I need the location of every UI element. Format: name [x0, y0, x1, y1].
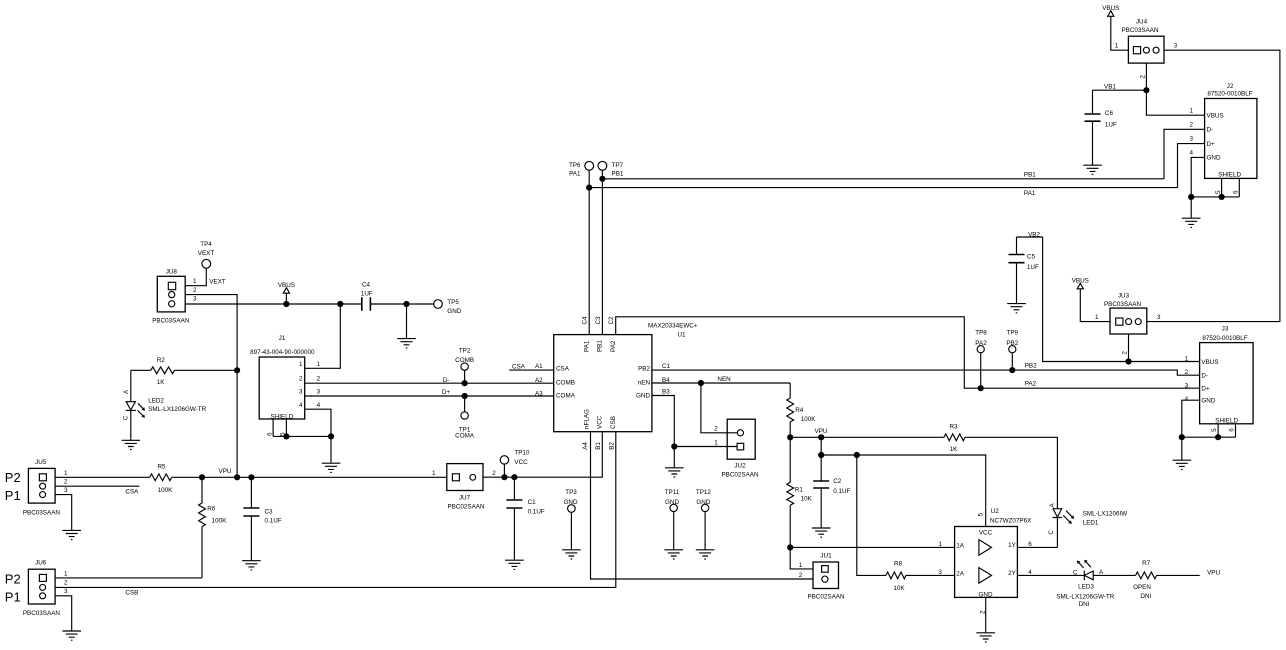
svg-text:1: 1: [64, 470, 68, 477]
svg-text:A2: A2: [535, 377, 543, 384]
wire J1 shield pins to ground: [266, 419, 334, 463]
svg-text:R3: R3: [949, 424, 958, 431]
ground below J2: [1182, 218, 1201, 227]
svg-text:3: 3: [938, 569, 942, 576]
svg-text:COMA: COMA: [556, 393, 576, 400]
wire VBUS to JU3 pin1: [1080, 289, 1110, 322]
svg-text:R4: R4: [795, 407, 804, 414]
capacitor C1 0.1UF: [506, 474, 545, 560]
test point TP1 COMA: [455, 396, 475, 440]
wire J1 pin1 to VBUS rail: [305, 304, 341, 368]
capacitor C3 0.1UF: [243, 477, 281, 560]
svg-text:87520-0010BLF: 87520-0010BLF: [1207, 91, 1252, 98]
connector J1 897-43-004-90-000000: [250, 335, 315, 420]
svg-text:VEXT: VEXT: [209, 279, 226, 286]
svg-text:D+: D+: [1201, 386, 1210, 393]
svg-text:JU6: JU6: [35, 560, 47, 567]
svg-text:TP2: TP2: [459, 348, 471, 355]
svg-text:VPU: VPU: [219, 468, 232, 475]
ground below JU6: [62, 631, 81, 640]
svg-text:2: 2: [64, 579, 68, 586]
test point TP7 PB1: [598, 161, 624, 177]
connector JU1 PBC02SAAN: [807, 553, 845, 601]
ground below U1 GND: [665, 468, 684, 477]
wire J1 pin4 to ground: [305, 402, 331, 436]
svg-text:1: 1: [1095, 314, 1099, 321]
test point TP9 PB2: [1006, 330, 1018, 371]
svg-text:0.1UF: 0.1UF: [528, 509, 545, 516]
svg-text:PA2: PA2: [1025, 380, 1037, 387]
svg-text:897-43-004-90-000000: 897-43-004-90-000000: [250, 349, 315, 356]
resistor R6 100K: [199, 477, 228, 578]
svg-text:NC7WZ07P6X: NC7WZ07P6X: [990, 517, 1032, 524]
wire VBUS rail from JU8 pin3 to C4: [185, 301, 362, 307]
ground below C3: [242, 561, 261, 570]
svg-text:TP10: TP10: [514, 450, 530, 457]
svg-text:PB1: PB1: [1024, 172, 1036, 179]
wire U1 nFLAG A4 down to JU1 pin2: [591, 432, 814, 579]
svg-text:JU1: JU1: [820, 553, 832, 560]
wire J2 D- pin2 to net PB1: [1164, 129, 1205, 179]
svg-text:3: 3: [64, 487, 68, 494]
svg-text:PBC03SAAN: PBC03SAAN: [152, 318, 190, 325]
power symbol VBUS at JU3: [1072, 278, 1089, 289]
buffer gate 2 inside U2: [979, 568, 992, 584]
svg-text:100K: 100K: [212, 518, 228, 525]
svg-text:A4: A4: [582, 442, 589, 450]
svg-text:nEN: nEN: [638, 380, 651, 387]
LED LED2 SML-LX1206GW-TR: [122, 370, 206, 440]
svg-text:VBUS: VBUS: [1102, 5, 1119, 12]
wire C4 right to TP5 with ground branch: [370, 301, 433, 338]
svg-text:2: 2: [714, 425, 718, 432]
wire JU1 pin1 to R1 node: [790, 547, 813, 579]
wire JU6 pin1 to R6 bottom: [55, 577, 202, 579]
svg-text:J3: J3: [1222, 326, 1229, 333]
svg-text:A3: A3: [535, 391, 543, 398]
test point TP6 PA1: [569, 161, 594, 177]
svg-text:PB2: PB2: [1025, 363, 1037, 370]
svg-text:P1: P1: [5, 590, 21, 605]
svg-text:1: 1: [299, 361, 303, 368]
connector J2 87520-0010BLF (USB): [1189, 83, 1256, 194]
svg-text:TP9: TP9: [1007, 330, 1019, 337]
wire JU6 pin2 net CSB to U1 CSB: [55, 432, 616, 597]
svg-text:5: 5: [1211, 428, 1218, 432]
svg-text:3: 3: [299, 388, 303, 395]
ground below C5: [1007, 304, 1026, 313]
wire U1 nEN to net NEN: [652, 376, 790, 386]
svg-text:100K: 100K: [158, 487, 174, 494]
transistor U2 NC7WZ07P6X (dual buffer): [955, 508, 1032, 598]
svg-text:PA1: PA1: [1024, 190, 1036, 197]
svg-text:U1: U1: [677, 332, 686, 339]
svg-text:D-: D-: [1201, 372, 1208, 379]
connector JU6 PBC03SAAN: [5, 560, 68, 618]
svg-text:3: 3: [64, 588, 68, 595]
svg-text:4: 4: [1185, 396, 1189, 403]
svg-text:3: 3: [317, 388, 321, 395]
svg-text:TP6: TP6: [569, 162, 581, 169]
svg-text:2: 2: [799, 572, 803, 579]
svg-text:U2: U2: [991, 508, 1000, 515]
svg-text:1: 1: [799, 562, 803, 569]
svg-text:C1: C1: [528, 499, 537, 506]
svg-text:10K: 10K: [801, 496, 813, 503]
ground below J1: [322, 463, 341, 472]
svg-text:P2: P2: [5, 572, 21, 587]
svg-text:JU5: JU5: [35, 459, 47, 466]
wire TP6 stem to U1 PA1 pin: [588, 170, 590, 334]
svg-text:R5: R5: [157, 463, 166, 470]
svg-text:1: 1: [714, 439, 718, 446]
resistor R5 100K: [150, 463, 173, 494]
svg-text:100K: 100K: [801, 416, 817, 423]
svg-text:A1: A1: [535, 363, 543, 370]
connector J3 87520-0010BLF (USB): [1185, 326, 1253, 432]
svg-text:TP8: TP8: [975, 330, 987, 337]
svg-text:J2: J2: [1227, 83, 1234, 90]
LED LED3 SML-LX1206GW-TR DNI: [1056, 560, 1114, 608]
svg-text:VCC: VCC: [597, 415, 604, 429]
svg-text:4: 4: [1028, 569, 1032, 576]
U2 pin 2 label and GND stem: [979, 597, 986, 632]
svg-text:PB1: PB1: [612, 171, 624, 178]
wire JU4 pin3 to right edge down to JU3 pin3: [1147, 50, 1280, 321]
svg-text:1: 1: [432, 470, 436, 477]
svg-text:R6: R6: [207, 506, 216, 513]
svg-text:5: 5: [280, 432, 287, 436]
wire J3 GND pin4 and SHIELD to ground: [1179, 400, 1236, 460]
ground below JU5: [62, 530, 81, 539]
svg-text:JU7: JU7: [459, 494, 471, 501]
svg-text:SML-LX1206GW-TR: SML-LX1206GW-TR: [148, 406, 206, 413]
svg-text:GND: GND: [1207, 155, 1221, 162]
svg-text:VCC: VCC: [979, 530, 993, 537]
svg-text:JU2: JU2: [734, 463, 746, 470]
svg-text:SML-LX1206GW-TR: SML-LX1206GW-TR: [1056, 593, 1114, 600]
svg-text:DNI: DNI: [1140, 593, 1151, 600]
svg-text:2: 2: [492, 470, 496, 477]
wire R8 branch from VCC row to U2 2A: [857, 455, 886, 575]
resistor R2 1K: [131, 357, 237, 386]
test point TP10 VCC: [500, 450, 530, 481]
test point TP3 GND: [564, 489, 578, 549]
svg-text:PA1: PA1: [569, 171, 581, 178]
svg-text:C: C: [122, 415, 129, 420]
wire VB1 to J2 VBUS pin1: [1146, 90, 1204, 115]
buffer gate 1 inside U2: [979, 540, 992, 556]
svg-text:B2: B2: [609, 442, 616, 450]
wire net PB1 from TP7 to J2: [599, 176, 1164, 182]
wire VB2 to J3 VBUS pin1: [1043, 237, 1200, 365]
test point TP2 COMB: [455, 348, 474, 384]
svg-text:VPU: VPU: [1207, 569, 1220, 576]
svg-text:87520-0010BLF: 87520-0010BLF: [1202, 335, 1247, 342]
svg-text:3: 3: [193, 296, 197, 303]
svg-text:C6: C6: [1105, 110, 1114, 117]
svg-text:C1: C1: [662, 363, 671, 370]
wire net PB2 from U1 to J3 D-: [652, 367, 1200, 375]
svg-text:2: 2: [1189, 121, 1193, 128]
ground below C1: [505, 560, 524, 569]
svg-text:3: 3: [1185, 383, 1189, 390]
wire JU4 pin2 to node VB1: [1093, 63, 1150, 93]
ground below U2: [976, 633, 995, 642]
svg-text:1: 1: [1185, 356, 1189, 363]
svg-text:VB1: VB1: [1104, 84, 1116, 91]
svg-text:C4: C4: [582, 316, 589, 325]
svg-text:C2: C2: [608, 316, 615, 325]
svg-text:P2: P2: [5, 470, 21, 485]
wire JU2 pin2 to net NEN: [701, 383, 737, 433]
svg-text:DNI: DNI: [1079, 601, 1090, 608]
svg-text:PB2: PB2: [638, 366, 650, 373]
svg-text:D-: D-: [443, 377, 450, 384]
svg-text:PBC03SAAN: PBC03SAAN: [1104, 301, 1142, 308]
svg-text:LED3: LED3: [1078, 584, 1094, 591]
svg-text:C: C: [1048, 530, 1055, 535]
svg-text:SHIELD: SHIELD: [1218, 172, 1241, 179]
wire net PA2 from U1 to J3 D+: [616, 317, 1200, 392]
svg-text:R7: R7: [1142, 560, 1151, 567]
ground below LED2: [122, 440, 141, 449]
svg-text:B3: B3: [662, 388, 670, 395]
svg-text:6: 6: [1229, 428, 1236, 432]
test point TP4 VEXT: [198, 241, 215, 268]
test point TP12 GND: [696, 489, 712, 549]
svg-text:TP11: TP11: [665, 489, 680, 496]
svg-text:JU4: JU4: [1136, 18, 1148, 25]
wire JU5 pin2 net CSA: [55, 486, 139, 495]
svg-text:2: 2: [299, 376, 303, 383]
svg-text:1K: 1K: [157, 379, 166, 386]
svg-text:1A: 1A: [956, 543, 965, 550]
svg-text:4: 4: [317, 402, 321, 409]
svg-text:1: 1: [1189, 107, 1193, 114]
resistor R4 100K (NEN to VPU): [787, 383, 817, 437]
wire VPU to U2 VCC row: [818, 437, 986, 526]
svg-text:PBC02SAAN: PBC02SAAN: [807, 594, 845, 601]
svg-text:SML-LX1206IW: SML-LX1206IW: [1083, 511, 1128, 518]
wire JU5 pin1 to R5: [55, 476, 150, 478]
svg-text:2: 2: [1185, 369, 1189, 376]
svg-text:PBC03SAAN: PBC03SAAN: [1121, 27, 1159, 34]
svg-text:1UF: 1UF: [1105, 122, 1117, 129]
svg-text:GND: GND: [1201, 398, 1215, 405]
wire JU8 pin2 down to VPU rail: [185, 295, 240, 481]
resistor R8 10K: [886, 561, 955, 593]
test point TP5 GND: [434, 299, 462, 315]
svg-text:5: 5: [1215, 190, 1222, 194]
svg-text:3: 3: [1189, 135, 1193, 142]
svg-text:GND: GND: [979, 591, 993, 598]
svg-text:PB2: PB2: [1006, 340, 1018, 347]
svg-text:R8: R8: [894, 561, 903, 568]
svg-text:1Y: 1Y: [1008, 542, 1017, 549]
svg-text:CSB: CSB: [610, 416, 617, 429]
svg-text:GND: GND: [447, 308, 461, 315]
connector JU4 PBC03SAAN: [1115, 18, 1178, 78]
svg-text:SHIELD: SHIELD: [271, 413, 294, 420]
wire J2 GND pin4 and SHIELD to ground: [1188, 157, 1239, 218]
svg-text:1UF: 1UF: [1027, 264, 1039, 271]
wire U1 VCC B1 down to JU7/TP10/C1: [483, 432, 602, 478]
svg-text:3: 3: [1174, 42, 1178, 49]
svg-text:PB1: PB1: [597, 340, 604, 352]
wire VPU rail to JU7: [172, 468, 447, 480]
svg-text:CSA: CSA: [512, 363, 526, 370]
connector JU2 PBC02SAAN: [721, 419, 759, 478]
svg-text:NEN: NEN: [717, 376, 731, 383]
test point TP11 GND: [665, 489, 680, 549]
svg-text:2: 2: [317, 376, 321, 383]
svg-text:TP3: TP3: [565, 489, 577, 496]
svg-text:TP4: TP4: [200, 241, 212, 248]
svg-text:1K: 1K: [950, 446, 959, 453]
svg-text:VEXT: VEXT: [198, 250, 215, 257]
svg-text:C4: C4: [362, 282, 371, 289]
capacitor C4 1UF: [361, 282, 373, 311]
svg-text:COMA: COMA: [455, 433, 475, 440]
wire J1 pin3 to U1 COMA (net COMA): [305, 388, 554, 399]
wire U1 GND B3 to ground and JU2 pin1: [652, 396, 739, 468]
svg-text:VBUS: VBUS: [1072, 278, 1089, 285]
svg-text:2: 2: [193, 287, 197, 294]
resistor R1 10K: [787, 437, 813, 547]
svg-text:D-: D-: [1207, 127, 1214, 134]
wire U2 1Y to LED1 cathode: [1017, 518, 1057, 548]
svg-text:PBC02SAAN: PBC02SAAN: [721, 472, 759, 479]
connector JU3 PBC03SAAN: [1095, 292, 1161, 354]
svg-text:1UF: 1UF: [361, 290, 373, 297]
svg-text:2: 2: [1140, 75, 1147, 79]
test point TP8 PA2: [975, 330, 987, 389]
svg-text:MAX20334EWC+: MAX20334EWC+: [648, 323, 698, 330]
svg-text:5: 5: [977, 513, 984, 517]
svg-text:C: C: [1073, 569, 1078, 576]
svg-text:D+: D+: [442, 389, 451, 396]
U1 pin number A1 / wire CSA stub: [509, 363, 553, 370]
ground below TP11: [664, 550, 683, 559]
power symbol VBUS above rail: [278, 282, 295, 304]
svg-text:R2: R2: [157, 357, 166, 364]
wire J1 pin2 to U1 COMB (net COMB): [305, 376, 554, 387]
capacitor C6 1UF: [1085, 90, 1117, 165]
svg-text:6: 6: [1028, 541, 1032, 548]
svg-text:PBC02SAAN: PBC02SAAN: [447, 504, 485, 511]
svg-text:VPU: VPU: [815, 428, 828, 435]
resistor R7 OPEN DNI: [1133, 560, 1157, 600]
svg-text:C2: C2: [833, 478, 842, 485]
wire net PA1 from TP6 to J2: [586, 185, 1177, 191]
svg-text:TP12: TP12: [696, 489, 712, 496]
svg-text:4: 4: [299, 402, 303, 409]
svg-text:C3: C3: [595, 316, 602, 325]
svg-text:COMB: COMB: [455, 357, 474, 364]
svg-text:GND: GND: [564, 499, 578, 506]
svg-text:OPEN: OPEN: [1133, 584, 1151, 591]
wire R7 to net VPU: [1157, 569, 1221, 576]
node VB2 and capacitor C5 1UF: [1009, 232, 1043, 304]
svg-text:TP5: TP5: [447, 299, 459, 306]
svg-text:VBUS: VBUS: [278, 282, 295, 289]
svg-text:LED1: LED1: [1083, 519, 1099, 526]
ground below C2: [812, 528, 831, 537]
wire VBUS net at JU4 / power symbol VBUS (top right): [1111, 16, 1129, 50]
wire node at R1 bottom to U2 1A: [787, 541, 954, 551]
svg-text:LED2: LED2: [148, 398, 164, 405]
svg-text:C5: C5: [1027, 254, 1036, 261]
svg-text:4: 4: [1189, 149, 1193, 156]
svg-text:CSB: CSB: [125, 590, 138, 597]
svg-text:COMB: COMB: [556, 380, 575, 387]
svg-text:J1: J1: [279, 335, 286, 342]
svg-text:JU8: JU8: [166, 269, 178, 276]
svg-text:2: 2: [64, 479, 68, 486]
svg-text:PA2: PA2: [610, 340, 617, 352]
svg-text:PA1: PA1: [584, 340, 591, 352]
svg-text:2A: 2A: [956, 570, 965, 577]
connector JU7 PBC02SAAN: [447, 464, 496, 511]
svg-text:P1: P1: [5, 488, 21, 503]
wire U2 2Y to LED3: [1017, 569, 1084, 576]
LED LED1 SML-LX1206IW: [1048, 503, 1127, 535]
ground below TP12: [696, 550, 715, 559]
wire node VPU row with R3: [787, 428, 944, 441]
svg-text:1: 1: [938, 541, 942, 548]
svg-text:0.1UF: 0.1UF: [833, 488, 850, 495]
svg-text:1: 1: [1115, 42, 1119, 49]
wire TP7 stem to U1 PB1 pin: [601, 170, 603, 334]
svg-text:PBC03SAAN: PBC03SAAN: [23, 610, 61, 617]
svg-text:GND: GND: [636, 393, 650, 400]
wire LED3 to R7: [1093, 574, 1135, 576]
svg-text:nFLAG: nFLAG: [584, 409, 591, 429]
svg-text:JU3: JU3: [1118, 292, 1130, 299]
svg-text:C3: C3: [265, 508, 274, 515]
svg-text:TP7: TP7: [612, 162, 624, 169]
wire JU6 pin3 to ground: [55, 596, 72, 631]
ground below C4: [397, 339, 416, 348]
svg-text:SHIELD: SHIELD: [1215, 418, 1238, 425]
svg-text:6: 6: [1233, 190, 1240, 194]
svg-text:10K: 10K: [893, 585, 905, 592]
svg-text:PBC03SAAN: PBC03SAAN: [23, 509, 61, 516]
connector JU8 PBC03SAAN: [152, 269, 197, 325]
svg-text:CSA: CSA: [556, 366, 570, 373]
ground below TP3: [562, 550, 581, 559]
ground below J3: [1173, 460, 1192, 469]
svg-text:PA2: PA2: [975, 340, 987, 347]
ground below C6: [1083, 165, 1102, 174]
svg-text:CSA: CSA: [125, 488, 139, 495]
svg-text:R1: R1: [795, 487, 804, 494]
svg-text:3: 3: [1157, 314, 1161, 321]
wire TP4 to JU8 pin1 / net VEXT: [185, 268, 226, 286]
svg-text:D+: D+: [1207, 141, 1216, 148]
wire JU5 pin3 to ground: [55, 495, 72, 530]
svg-text:1: 1: [64, 571, 68, 578]
resistor R3 1K: [944, 424, 1057, 509]
power symbol VBUS top-right: [1102, 5, 1119, 16]
connector JU5 PBC03SAAN: [5, 459, 68, 516]
svg-text:VCC: VCC: [514, 459, 528, 466]
svg-text:GND: GND: [665, 499, 679, 506]
svg-text:1: 1: [317, 361, 321, 368]
svg-text:B1: B1: [595, 442, 602, 450]
svg-text:2Y: 2Y: [1008, 570, 1017, 577]
